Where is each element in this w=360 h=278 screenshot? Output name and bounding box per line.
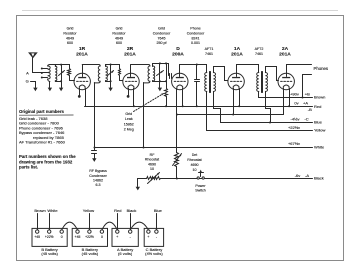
- svg-text:600: 600: [116, 41, 122, 45]
- white battery lead: [49, 214, 51, 230]
- wire L3 primary to white bus: [143, 83, 145, 148]
- svg-text:Grid: Grid: [125, 112, 132, 116]
- svg-text:10: 10: [193, 168, 197, 172]
- wire G to ground: [31, 82, 36, 86]
- svg-text:Brown: Brown: [314, 95, 325, 100]
- antenna coil L1 secondary: [55, 65, 57, 67]
- wire L2 bottom to C2: [106, 81, 111, 83]
- svg-text:Grid: Grid: [116, 27, 123, 31]
- svg-text:Red: Red: [314, 104, 321, 109]
- svg-text:Rheostat: Rheostat: [187, 158, 201, 162]
- yellow battery lead: [89, 214, 91, 230]
- triode tube 1A: [228, 73, 244, 89]
- variable capacitor C3: [159, 64, 161, 82]
- svg-text:Grid: Grid: [67, 27, 74, 31]
- wire 2A filament right to red bus: [289, 89, 291, 107]
- triode tube 1R: [74, 73, 90, 89]
- svg-text:-: -: [130, 235, 131, 239]
- svg-text:Yellow: Yellow: [83, 208, 95, 213]
- wire T2 primary bottom to brown bus: [258, 92, 260, 98]
- svg-text:+: +: [147, 235, 149, 239]
- antenna coil L1 primary: [48, 66, 51, 79]
- svg-text:AF Transformer #1 - 7660: AF Transformer #1 - 7660: [19, 140, 66, 145]
- svg-text:Condenser: Condenser: [89, 174, 107, 178]
- series jumper B1 to B2: [62, 222, 78, 230]
- AF transformer T1 secondary winding: [213, 73, 215, 92]
- svg-text:White: White: [47, 208, 58, 213]
- svg-text:Grid: Grid: [158, 27, 165, 31]
- svg-text:+67½v: +67½v: [288, 141, 300, 146]
- wire ground to RF rheostat: [137, 179, 139, 185]
- svg-text:Black: Black: [127, 208, 137, 213]
- filament bus detector: [177, 114, 284, 116]
- svg-text:Leak: Leak: [125, 117, 133, 121]
- svg-text:+45: +45: [34, 235, 40, 239]
- svg-text:201A: 201A: [279, 52, 291, 58]
- variable capacitor C2: [110, 65, 112, 82]
- AF transformer T2 secondary winding: [265, 73, 267, 92]
- svg-text:-C: -C: [304, 116, 308, 121]
- wire 1A plate to AFT2: [237, 65, 259, 77]
- wire 1R plate to L2: [82, 65, 84, 77]
- svg-text:250 pf: 250 pf: [157, 41, 167, 45]
- wire T1 primary bottom to yellow bus: [206, 92, 208, 131]
- wire C2 top to grid resistor R2: [111, 64, 120, 66]
- grid resistor R2 600 ohm: [119, 65, 121, 69]
- wire 1R filament right to red bus: [85, 89, 87, 107]
- red battery lead: [117, 214, 119, 230]
- svg-text:15862: 15862: [124, 122, 134, 126]
- svg-text:Power: Power: [195, 184, 206, 188]
- svg-text:0: 0: [61, 235, 63, 239]
- scan artifact line: [22, 10, 338, 12]
- svg-text:Blue: Blue: [154, 208, 163, 213]
- svg-text:parts list.: parts list.: [19, 164, 38, 169]
- triode tube 2R: [123, 73, 139, 89]
- svg-text:A: A: [26, 71, 29, 76]
- svg-text:Brown: Brown: [34, 208, 45, 213]
- RF coil L2 secondary: [105, 65, 107, 67]
- svg-text:4649: 4649: [115, 36, 123, 40]
- ground RF bypass: [94, 156, 96, 159]
- AF transformer T2 core: [261, 72, 263, 93]
- svg-text:+22½v: +22½v: [288, 125, 300, 130]
- svg-text:Black: Black: [314, 176, 324, 181]
- wire phones return to brown bus: [303, 74, 312, 76]
- svg-text:Original part numbers: Original part numbers: [19, 109, 64, 114]
- grid leak pointer arrow: [134, 94, 164, 112]
- battery B2 box: [72, 228, 107, 246]
- RF bypass condenser: [94, 148, 96, 151]
- svg-text:4649: 4649: [66, 36, 74, 40]
- AF transformer T1 core: [209, 72, 211, 93]
- ground antenna coil: [49, 86, 51, 88]
- svg-text:D: D: [176, 46, 180, 52]
- svg-text:10: 10: [150, 167, 154, 171]
- svg-text:G: G: [26, 79, 29, 84]
- black battery lead: [130, 214, 132, 230]
- svg-text:(45 volts): (45 volts): [82, 251, 99, 256]
- svg-text:1A: 1A: [234, 46, 241, 52]
- svg-text:-4½v: -4½v: [291, 116, 300, 121]
- svg-text:Det: Det: [192, 153, 198, 157]
- yellow bus +22.5v: [207, 130, 313, 132]
- wire D filament left to filament bus: [176, 89, 178, 115]
- svg-text:-: -: [156, 235, 157, 239]
- wire 2R filament right to red bus: [133, 89, 135, 107]
- wire 2R plate to L3: [130, 65, 132, 77]
- svg-text:0: 0: [101, 235, 103, 239]
- AF transformer T2 primary winding: [257, 73, 259, 92]
- svg-text:-B: -B: [308, 107, 312, 112]
- wire L3 bottom to C3: [153, 81, 167, 83]
- svg-text:-6v: -6v: [295, 173, 301, 178]
- grid leak resistor 2 Meg: [166, 64, 168, 89]
- triode tube D: [172, 73, 188, 89]
- series jumper B2 to A: [102, 222, 117, 230]
- svg-text:8241: 8241: [192, 36, 200, 40]
- power switch: [197, 177, 199, 179]
- battery A box: [112, 228, 138, 246]
- battery C box: [144, 228, 163, 246]
- svg-text:2 Meg: 2 Meg: [124, 127, 134, 131]
- wire 2A filament left to filament bus: [283, 89, 285, 115]
- svg-text:Rheostat: Rheostat: [145, 158, 159, 162]
- wire R1 to 1R grid: [70, 80, 75, 82]
- svg-text:Phones: Phones: [314, 66, 329, 71]
- battery B1 box: [32, 228, 67, 246]
- svg-text:7645: 7645: [158, 36, 166, 40]
- ground C2: [110, 86, 112, 88]
- RF rheostat 4690: [147, 177, 161, 180]
- svg-text:AFT2: AFT2: [255, 47, 264, 51]
- antenna coil taps: [42, 68, 48, 70]
- wire antenna terminal A to coil tap: [33, 72, 42, 74]
- svg-text:Resistor: Resistor: [112, 32, 126, 36]
- wire L3 top to grid condenser: [153, 63, 169, 65]
- svg-text:0v: 0v: [294, 100, 298, 105]
- wire L2 top to C2: [106, 64, 111, 66]
- svg-text:Yellow: Yellow: [314, 127, 326, 132]
- wire 1R filament left stub: [79, 89, 81, 96]
- svg-text:6.3: 6.3: [96, 183, 101, 187]
- svg-text:Condenser: Condenser: [187, 32, 205, 36]
- ground C1: [61, 86, 63, 88]
- svg-text:201A: 201A: [76, 52, 88, 58]
- svg-text:Blue: Blue: [314, 120, 323, 125]
- brown battery lead: [37, 214, 39, 230]
- blue bus -4.5v: [221, 122, 313, 124]
- svg-text:+22½: +22½: [85, 235, 94, 239]
- svg-text:Red: Red: [114, 208, 121, 213]
- series jumper A to C: [130, 222, 148, 230]
- grid condenser C4 250pf: [168, 64, 170, 76]
- svg-text:(45 volts): (45 volts): [41, 251, 58, 256]
- wire T2 secondary bottom to blue bus: [266, 92, 271, 123]
- svg-text:RF Bypass: RF Bypass: [89, 169, 107, 173]
- svg-text:4690: 4690: [148, 162, 156, 166]
- svg-text:+B: +B: [305, 91, 310, 96]
- svg-text:7461: 7461: [205, 52, 213, 56]
- svg-text:Resistor: Resistor: [63, 32, 77, 36]
- wire secondary bottom to C1: [56, 81, 62, 83]
- svg-text:1R: 1R: [79, 46, 86, 52]
- svg-text:White: White: [314, 144, 325, 149]
- svg-text:+A: +A: [303, 100, 308, 105]
- antenna: [29, 53, 37, 58]
- svg-text:14862: 14862: [93, 179, 103, 183]
- svg-text:200A: 200A: [172, 52, 184, 58]
- triode tube 2A: [278, 73, 294, 89]
- svg-text:201A: 201A: [231, 52, 243, 58]
- svg-text:2A: 2A: [282, 46, 289, 52]
- svg-text:Phone: Phone: [190, 27, 200, 31]
- svg-text:7461: 7461: [255, 52, 263, 56]
- svg-text:(4½ volts): (4½ volts): [145, 251, 163, 256]
- wire C1 to ground: [61, 82, 63, 86]
- svg-text:4690: 4690: [191, 163, 199, 167]
- grid resistor R1 600 ohm: [69, 65, 71, 69]
- RF coil L2 primary: [98, 66, 100, 81]
- black bus -6v: [161, 178, 313, 180]
- det rheostat 4690: [176, 115, 178, 153]
- wire L2 primary to white bus: [94, 83, 96, 148]
- RF coil L3 primary: [148, 66, 150, 81]
- svg-text:+: +: [116, 235, 118, 239]
- wire D filament right to red bus: [182, 89, 184, 107]
- ground G terminal: [35, 86, 37, 88]
- svg-text:RF: RF: [150, 153, 156, 157]
- variable capacitor C1: [61, 65, 63, 82]
- svg-text:0.001: 0.001: [191, 41, 200, 45]
- svg-text:+22½: +22½: [45, 235, 54, 239]
- white bus +67.5v: [94, 147, 96, 149]
- phone condenser 0.001: [196, 64, 198, 66]
- svg-text:Condenser: Condenser: [153, 32, 171, 36]
- AF transformer T1 primary winding: [205, 73, 207, 92]
- wire T2 secondary top to 2A grid: [266, 67, 279, 81]
- wire secondary top to C1: [56, 64, 62, 66]
- wire T1 secondary bottom to blue bus: [214, 92, 221, 123]
- RF coil L3 secondary: [152, 64, 154, 67]
- red bus 0v: [85, 106, 313, 108]
- svg-text:AFT1: AFT1: [205, 47, 214, 51]
- svg-text:+45: +45: [75, 235, 81, 239]
- wire 2R filament left stub: [128, 89, 130, 96]
- svg-text:Switch: Switch: [195, 189, 206, 193]
- wire L1 primary top to secondary top: [50, 64, 56, 66]
- wire R2 to 2R grid: [120, 80, 123, 82]
- brown bus +90v: [259, 97, 313, 99]
- ground RF rheostat: [137, 185, 139, 187]
- wire T1 secondary top to 1A grid: [214, 67, 228, 81]
- wire C2 to ground: [110, 82, 112, 86]
- ground C3: [159, 86, 161, 88]
- wire 1A filament left to filament bus: [233, 89, 235, 115]
- wire 2A plate to phones: [287, 65, 312, 77]
- svg-text:+90v: +90v: [290, 91, 299, 96]
- svg-text:201A: 201A: [124, 52, 136, 58]
- wire D plate to AFT1: [180, 65, 207, 77]
- svg-text:-A: -A: [305, 173, 309, 178]
- svg-text:(6 volts): (6 volts): [118, 251, 133, 256]
- svg-text:2R: 2R: [127, 46, 134, 52]
- svg-text:600: 600: [67, 41, 73, 45]
- wire 1A filament right to red bus: [239, 89, 241, 107]
- wire C1 top to grid resistor R1: [62, 64, 70, 66]
- wire C3 to ground: [159, 82, 161, 86]
- blue battery lead: [156, 214, 158, 230]
